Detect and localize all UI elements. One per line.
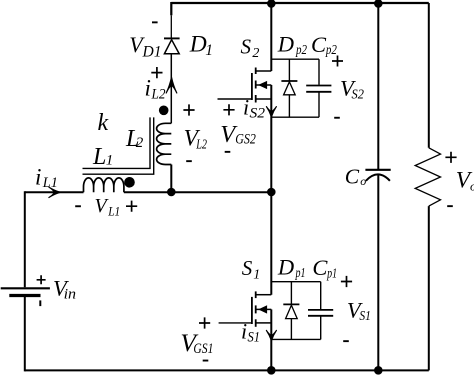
svg-text:D: D	[189, 32, 207, 58]
wire L2 bottom to middle rail	[170, 165, 172, 193]
wire S2 source vertical to middle rail	[270, 85, 272, 192]
node junction dot top at Co column	[374, 0, 383, 8]
svg-text:C: C	[312, 255, 328, 280]
node junction dot bottom at Co column	[374, 366, 383, 375]
wire Dp1 Cp1 bottom connection	[271, 338, 320, 340]
svg-text:i: i	[35, 164, 41, 189]
polarity dot L1	[124, 177, 135, 188]
wire resistor to bottom rail	[428, 206, 430, 370]
diode Dp1	[283, 304, 299, 318]
node junction dot bottom at MOSFET column	[267, 366, 276, 375]
label minus VS1	[343, 340, 349, 342]
wire left vertical down to battery	[24, 191, 26, 287]
label plus VS1	[341, 276, 352, 287]
inductor L1 coil	[84, 178, 124, 192]
svg-text:L1: L1	[42, 175, 58, 191]
wire battery to bottom rail	[24, 297, 26, 371]
label plus VS2	[332, 56, 343, 67]
current arrow iS1	[266, 330, 276, 340]
wire bottom rail	[25, 369, 429, 371]
diode Dp2	[281, 81, 297, 95]
svg-text:S: S	[242, 256, 253, 280]
label minus Vo	[447, 205, 453, 207]
label minus VS2	[334, 117, 340, 119]
wire Co branch from top rail	[377, 3, 379, 169]
svg-text:k: k	[98, 110, 109, 136]
current arrow iL2	[166, 77, 177, 93]
svg-text:C: C	[345, 164, 360, 188]
svg-text:L2: L2	[195, 138, 207, 153]
wire top rail	[171, 2, 429, 4]
svg-text:D: D	[277, 32, 294, 57]
current arrow iL1	[49, 187, 60, 197]
label minus VL2	[186, 160, 192, 162]
transistor S1	[252, 291, 271, 326]
wire Dp2 Cp2 bottom connection	[271, 116, 319, 118]
svg-text:i: i	[145, 76, 151, 101]
label minus VL1	[75, 205, 81, 207]
svg-text:C: C	[311, 32, 327, 57]
svg-text:i: i	[241, 319, 247, 344]
svg-text:in: in	[64, 286, 77, 302]
wire right branch from top rail to resistor	[428, 3, 430, 148]
label minus above D1	[152, 21, 158, 23]
label battery minus tick	[39, 300, 41, 306]
capacitor Cp2	[306, 59, 331, 117]
svg-text:L2: L2	[151, 87, 166, 103]
label plus VGS1	[199, 317, 210, 328]
label minus VGS2	[225, 151, 231, 153]
wire Dp2 Cp2 top connection	[271, 58, 319, 60]
label plus VGS2	[223, 104, 234, 115]
wire S2 gate lead	[218, 98, 252, 100]
polarity dot L2	[159, 106, 169, 116]
capacitor Co curved plate	[366, 174, 390, 180]
svg-text:GS1: GS1	[193, 341, 213, 357]
core line inner of coupled inductor	[83, 117, 151, 168]
svg-text:1: 1	[106, 152, 114, 168]
wire S2 drain vertical from top rail	[270, 3, 272, 71]
wire Dp1 Cp1 top connection	[271, 281, 320, 283]
svg-text:o: o	[470, 179, 474, 194]
svg-text:1: 1	[205, 42, 213, 59]
wire Co to bottom rail	[377, 175, 379, 371]
svg-text:L1: L1	[107, 204, 120, 219]
wire middle rail L1 to MOSFET column	[124, 191, 271, 193]
transistor S2	[252, 68, 271, 103]
svg-text:i: i	[243, 95, 249, 120]
label plus VL2	[183, 104, 194, 115]
svg-text:p2: p2	[295, 42, 307, 57]
wire S1 gate lead	[219, 322, 251, 324]
label plus Vo	[445, 152, 456, 163]
current arrow iS2	[266, 107, 276, 117]
svg-text:GS2: GS2	[235, 131, 256, 147]
svg-text:D: D	[277, 254, 294, 279]
node junction dot top at S2 drain column	[267, 0, 276, 8]
wire left top horizontal from source corner to L1	[25, 191, 84, 193]
node junction dot middle rail at MOSFET column	[267, 188, 276, 197]
label plus VL1	[126, 201, 137, 212]
svg-text:p1: p1	[326, 265, 337, 280]
svg-text:p1: p1	[295, 265, 306, 280]
svg-text:2: 2	[136, 135, 144, 151]
svg-text:S2: S2	[250, 106, 266, 122]
label minus VGS1	[203, 360, 209, 362]
wire middle rail to S1 drain	[270, 192, 272, 294]
svg-text:S2: S2	[352, 88, 364, 103]
label plus battery	[37, 275, 46, 284]
wire Dp1 branch vertical	[290, 282, 292, 340]
svg-text:p2: p2	[325, 42, 337, 57]
svg-text:S: S	[241, 35, 252, 59]
resistor load	[415, 148, 440, 206]
svg-text:o: o	[360, 174, 366, 188]
svg-text:2: 2	[252, 46, 259, 61]
battery Vin long plate	[1, 287, 50, 289]
capacitor Cp1	[308, 282, 333, 340]
svg-text:S1: S1	[359, 309, 371, 324]
battery Vin short plate	[9, 294, 40, 297]
wire D1 branch top segment	[170, 2, 172, 15]
wire D1 anode down to L2 coil	[170, 54, 172, 123]
svg-text:1: 1	[253, 267, 260, 282]
svg-text:D1: D1	[141, 43, 161, 60]
diode D1	[164, 38, 180, 53]
wire Dp2 branch vertical	[288, 59, 290, 117]
label plus below D1	[151, 67, 162, 78]
node junction dot middle rail at L2	[167, 188, 176, 197]
capacitor Co top plate	[365, 169, 390, 171]
wire D1 branch to diode	[170, 15, 172, 38]
core line outer of coupled inductor	[83, 117, 154, 174]
svg-text:S1: S1	[248, 330, 261, 346]
svg-text:L: L	[92, 144, 106, 170]
wire S1 source vertical to bottom rail	[270, 309, 272, 370]
inductor L2 coil	[157, 123, 172, 164]
